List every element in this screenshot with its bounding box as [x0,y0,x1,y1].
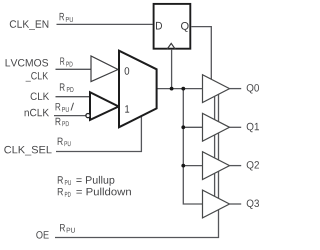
node Q0 label [247,84,259,93]
resistor note R_PU/ on nCLK (PU subscript) [62,107,69,112]
legend R_PD = Pulldown (PD subscript) [65,192,71,197]
inverting bubble on nCLK input [86,114,90,118]
junction dot at DFF clock tap [170,87,174,91]
wire nCLK to inverting bubble [54,115,86,117]
wire LVCMOS_CLK to buffer U1 [56,68,92,70]
buffer Q1 output buffer [203,113,230,141]
node CLK label [31,93,49,101]
resistor note R_PD on LVCMOS_CLK (R) [60,58,64,65]
wire CLK to diff buffer U2 [56,96,91,98]
node Q3 label [247,200,259,209]
mux U3 2:1 clock mux [119,51,157,128]
wire mux output clock line [157,88,203,90]
resistor note R_PU/ on nCLK (slash) [71,103,75,111]
junction dot at Q1 input stub [181,125,185,129]
buffer Q3 output buffer [203,190,230,218]
node LVCMOS_CLK label line 2 [26,72,48,82]
node CLK_EN label [10,20,49,30]
resistor note R_PU on CLK_EN (R) [60,13,65,20]
wire DFF Q output to enable chain [191,27,211,83]
flip-flop U4 D flip-flop box [154,4,191,49]
legend R_PU = Pullup (R) [58,176,63,183]
buffer Q0 output buffer [203,75,230,103]
buffer Q2 output buffer [203,152,230,180]
resistor note R_PU on OE (PU subscript) [67,228,75,233]
node OE label [36,231,48,239]
legend R_PD = Pulldown (R) [58,188,63,195]
resistor note R_PD on CLK (PD subscript) [67,87,74,92]
wire OE to Q3 enable [55,205,219,238]
buffer U2 differential input buffer [90,92,119,120]
wire CLK_SEL to mux select input [56,110,141,152]
node nCLK label [25,109,49,117]
legend R_PU = Pullup (PU subscript) [65,180,71,185]
legend R_PD = Pulldown (text) [76,188,130,196]
wire clock distribution vertical to Q3 [183,89,202,204]
resistor note R_PU/ on nCLK (R) [56,103,61,110]
wire Q3 output stub [230,203,242,205]
wire CLK_EN to DFF D input [57,23,153,25]
wire enable chain Q1 to Q2 [215,127,219,165]
resistor note R_PU on OE (R) [60,224,65,231]
mux input 0 label [125,67,130,75]
wire Q2 input stub [183,165,202,167]
wire Q1 input stub [183,126,202,128]
wire enable chain Q0 to Q1 [215,89,219,128]
wire enable chain Q2 to Q3 [215,166,219,204]
node LVCMOS_CLK label line 1 [6,59,49,67]
buffer U1 LVCMOS input buffer [91,56,118,82]
node Q2 label [247,161,259,170]
wire Q0 output stub [230,88,242,90]
wire DFF clock input from clock line [171,50,173,89]
node CLK_SEL label [4,146,51,156]
junction dot at distribution tap [181,87,185,91]
resistor note R_PD on CLK (R) [60,83,65,90]
wire Q1 output stub [230,126,242,128]
resistor note R_PU on CLK_SEL (R) [58,138,63,145]
pin Q label of flip-flop [181,22,189,32]
resistor note R_PU on CLK_EN (PU subscript) [66,17,73,22]
resistor note R_PD under nCLK (R) [56,118,61,125]
node Q1 label [247,123,259,132]
resistor note R_PD on LVCMOS_CLK (PD subscript) [66,62,72,67]
clock triangle on DFF bottom edge [167,43,175,49]
legend R_PU = Pullup (text) [76,176,114,186]
mux input 1 label [125,105,129,112]
junction dot at Q2 input stub [181,164,185,168]
wire Q2 output stub [230,165,242,167]
pin D label of flip-flop [156,22,162,30]
resistor note R_PD under nCLK (PD subscript) [62,121,69,126]
resistor note R_PU on CLK_SEL (PU subscript) [65,141,71,146]
